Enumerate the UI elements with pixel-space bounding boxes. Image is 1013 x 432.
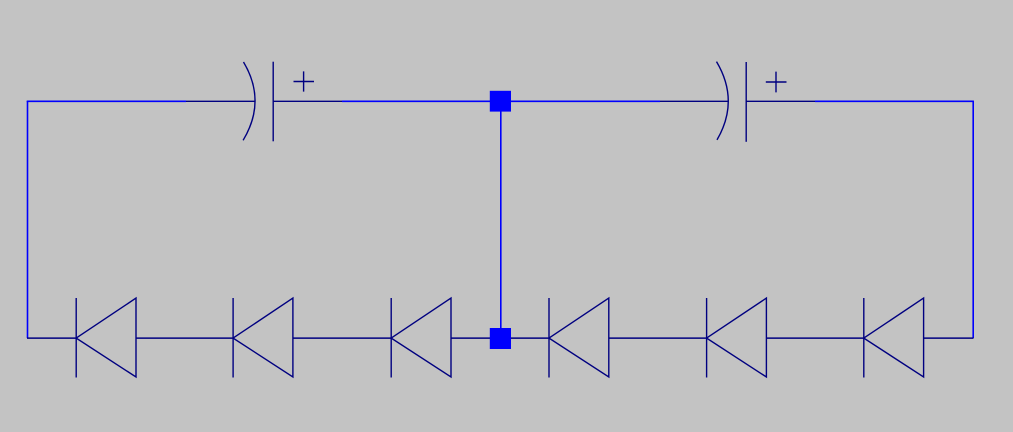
D1 cathode bar <box>75 298 77 378</box>
diode D2 <box>233 298 293 378</box>
C1 plus polarity mark <box>294 71 315 91</box>
D2 anode triangle <box>233 298 293 377</box>
wire: bottom lead D1 to D2 <box>136 337 233 339</box>
node: top junction <box>490 91 511 112</box>
D6 anode triangle <box>864 298 924 377</box>
D3 cathode bar <box>390 298 392 378</box>
D2 cathode bar <box>232 298 234 378</box>
wire: top horizontal C1 right pin to top node (blue) <box>342 100 491 102</box>
wire: top-left horizontal from corner to C1 pin (blue) <box>27 100 186 102</box>
wire: top horizontal top node to C2 left pin (blue) <box>510 100 660 102</box>
capacitor C2 (polarized, top-right) <box>660 62 815 142</box>
wire: bottom lead D4 to D5 <box>609 337 707 339</box>
D1 anode triangle <box>76 298 136 377</box>
C1 positive lead <box>273 100 342 102</box>
C2 curved negative plate <box>717 62 729 140</box>
diode D6 <box>864 298 924 378</box>
wire: bottom lead D6 to right corner <box>924 337 974 339</box>
diode D1 <box>76 298 136 378</box>
C1 curved negative plate <box>243 62 255 140</box>
C1 straight positive plate <box>272 62 274 142</box>
diode D5 <box>707 298 767 378</box>
wire: top horizontal C2 right pin to right corner (blue) <box>815 100 974 102</box>
wire: right vertical (net, blue) <box>972 101 974 338</box>
D4 anode triangle <box>549 298 609 377</box>
D3 anode triangle <box>391 298 451 377</box>
D4 cathode bar <box>548 298 550 378</box>
C1 negative lead <box>186 100 255 102</box>
wire: bottom lead D5 to D6 <box>766 337 863 339</box>
wire: bottom lead D3 to D4 through bottom node <box>451 337 549 339</box>
D5 anode triangle <box>707 298 767 377</box>
C2 positive lead <box>746 100 815 102</box>
C2 plus polarity mark <box>766 72 787 93</box>
wire: bottom lead D2 to D3 <box>293 337 391 339</box>
C2 straight positive plate <box>745 62 747 142</box>
diode D3 <box>391 298 451 378</box>
wire: bottom lead, left corner to D1 cathode <box>27 337 76 339</box>
capacitor C1 (polarized, top-left) <box>186 62 342 142</box>
wire: left vertical (net, blue) <box>27 101 29 338</box>
diode D4 <box>549 298 609 378</box>
D5 cathode bar <box>706 298 708 378</box>
node: bottom junction <box>490 328 511 349</box>
D6 cathode bar <box>863 298 865 378</box>
wire: middle vertical between nodes (blue) <box>500 110 502 329</box>
C2 negative lead <box>660 100 728 102</box>
